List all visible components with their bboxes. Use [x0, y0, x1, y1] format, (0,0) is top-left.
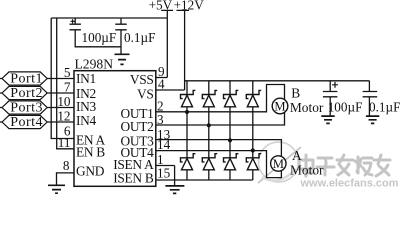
svg-text:VSS: VSS — [130, 72, 154, 87]
svg-text:EN B: EN B — [76, 145, 105, 160]
svg-text:Port3: Port3 — [10, 100, 43, 115]
svg-text:12: 12 — [57, 109, 70, 124]
svg-text:A: A — [292, 148, 302, 163]
svg-text:5: 5 — [64, 65, 71, 80]
svg-text:IN3: IN3 — [76, 99, 97, 114]
svg-text:100µF: 100µF — [82, 30, 117, 45]
svg-text:Motor: Motor — [290, 100, 324, 115]
svg-text:VS: VS — [137, 87, 154, 102]
svg-text:+12V: +12V — [174, 0, 205, 12]
svg-text:OUT2: OUT2 — [120, 119, 153, 134]
svg-text:7: 7 — [64, 80, 71, 95]
svg-text:IN1: IN1 — [76, 71, 96, 86]
svg-text:+5V: +5V — [149, 0, 173, 12]
svg-text:M: M — [274, 99, 285, 113]
svg-text:ISEN B: ISEN B — [113, 171, 154, 186]
svg-text:15: 15 — [157, 166, 171, 181]
svg-text:4: 4 — [158, 77, 165, 92]
svg-text:Port1: Port1 — [10, 71, 43, 86]
svg-text:Port2: Port2 — [10, 86, 43, 101]
svg-text:0.1µF: 0.1µF — [369, 100, 400, 115]
svg-text:11: 11 — [58, 135, 71, 150]
svg-text:L298N: L298N — [75, 56, 114, 71]
svg-text:8: 8 — [63, 158, 70, 173]
svg-text:100µF: 100µF — [328, 100, 363, 115]
svg-text:GND: GND — [76, 163, 105, 178]
svg-text:3: 3 — [157, 112, 164, 127]
svg-text:IN4: IN4 — [76, 113, 97, 128]
svg-text:0.1µF: 0.1µF — [124, 30, 155, 45]
svg-text:www.elecfans.com: www.elecfans.com — [300, 177, 399, 189]
svg-text:10: 10 — [57, 94, 71, 109]
svg-text:14: 14 — [157, 137, 171, 152]
svg-text:M: M — [273, 157, 284, 171]
svg-text:Motor: Motor — [290, 163, 324, 178]
svg-text:Port4: Port4 — [10, 115, 43, 130]
svg-text:B: B — [291, 85, 300, 100]
